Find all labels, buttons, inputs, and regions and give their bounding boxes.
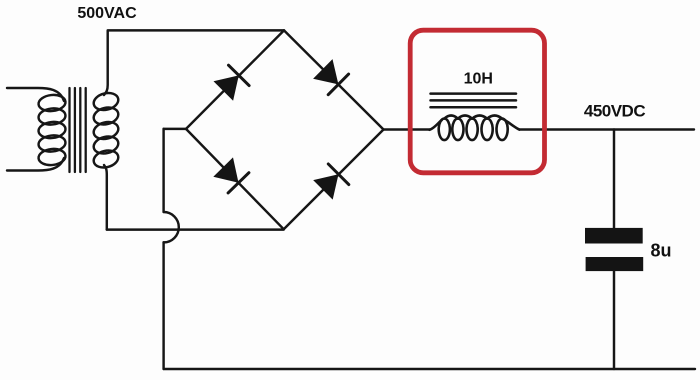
capacitor C1 top plate [585, 228, 643, 244]
bridge edge top-left [186, 30, 284, 128]
transformer T1 primary top lead [7, 88, 64, 101]
svg-text:500VAC: 500VAC [77, 5, 137, 22]
transformer T1 secondary winding [92, 91, 120, 170]
capacitor C1 bottom plate [586, 257, 644, 271]
wire secondary bottom to bridge bottom corner [107, 228, 284, 230]
wire secondary top to bridge top corner [108, 29, 284, 31]
wire bridge right corner to inductor [384, 128, 431, 130]
wire bottom rail [164, 368, 695, 370]
svg-text:10H: 10H [464, 71, 493, 88]
wire crossover hop [164, 212, 179, 242]
transformer T1 secondary top lead [104, 31, 108, 95]
diode D2 (top-right) [313, 59, 349, 95]
wire capacitor to bottom rail [613, 271, 615, 369]
diode D4 (bottom-right) [313, 164, 349, 200]
bridge edge bottom-right [284, 130, 384, 230]
wire bridge left corner stub [164, 128, 186, 130]
svg-text:8u: 8u [651, 241, 672, 261]
diode D3 (bottom-left) [213, 157, 249, 193]
svg-text:450VDC: 450VDC [584, 101, 645, 120]
red highlight box around choke [410, 30, 544, 173]
transformer T1 core [70, 88, 86, 172]
bridge edge bottom-left [186, 129, 284, 229]
wire left corner down to hop [162, 129, 164, 212]
bridge edge top-right [284, 30, 384, 129]
transformer T1 secondary bottom lead [104, 165, 107, 230]
inductor L1 core bars [431, 94, 517, 108]
wire hop down to bottom rail [162, 242, 164, 369]
inductor L1 winding [430, 116, 520, 141]
transformer T1 primary winding [38, 94, 67, 167]
diode D1 (top-left) [214, 65, 250, 101]
wire inductor to right edge [519, 128, 694, 130]
transformer T1 primary bottom lead [7, 158, 64, 171]
wire output node down to capacitor [613, 130, 615, 229]
